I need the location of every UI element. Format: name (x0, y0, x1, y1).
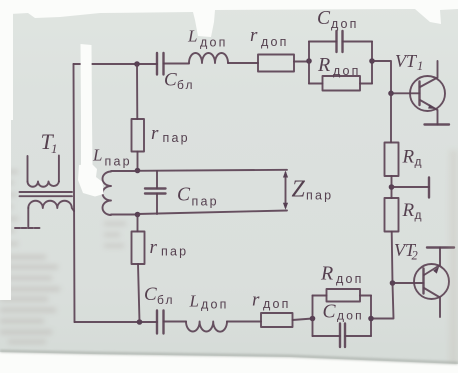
svg-text:д: д (415, 155, 424, 169)
resistor r_пар (lower) (132, 232, 145, 265)
wire: secondary left lead (27, 208, 29, 227)
svg-text:доп: доп (200, 36, 228, 50)
resistor r_доп (top) (258, 55, 294, 72)
svg-text:бл: бл (157, 293, 175, 307)
svg-text:C: C (323, 302, 337, 323)
svg-text:Z: Z (292, 177, 306, 203)
terminal bar at center tap (428, 178, 430, 198)
wire down to VT2 base (392, 232, 424, 284)
svg-text:пар: пар (163, 131, 190, 145)
svg-text:C: C (144, 284, 157, 305)
wire: bottom rail left segment (75, 321, 158, 323)
wire: right stub of top RC block (371, 42, 373, 84)
node: bottom-left junction dot (137, 319, 143, 325)
wire: middle branch from top rail (136, 64, 138, 119)
transistor VT2 (414, 264, 449, 299)
capacitor C_бл (bottom) (157, 311, 164, 334)
wire: VT2 base junction to bottom rail (371, 283, 394, 319)
wire: left vertical (74, 64, 75, 322)
resistor R_д (upper) (385, 143, 399, 177)
wire: right stub of bottom RC block (370, 296, 372, 337)
svg-text:пар: пар (306, 189, 333, 203)
svg-text:R: R (317, 54, 330, 76)
svg-text:R: R (402, 200, 415, 221)
svg-text:r: r (150, 237, 158, 258)
node: right node of top RC block (369, 58, 375, 64)
node: top-left junction dot (134, 61, 140, 67)
svg-text:пар: пар (105, 155, 132, 169)
wire to VT1 base (372, 61, 420, 93)
svg-text:C: C (164, 70, 177, 91)
svg-text:доп: доп (331, 17, 359, 31)
wire: left stub of bottom RC block (312, 296, 314, 337)
inductor L_пар (103, 171, 138, 215)
node: VT2 base junction (390, 280, 396, 286)
resistor R_д (lower) (385, 198, 399, 232)
wire: left stub of top RC block (308, 42, 310, 84)
svg-text:2: 2 (412, 249, 418, 263)
svg-text:1: 1 (417, 59, 423, 73)
svg-text:r: r (250, 25, 258, 46)
resistor r_пар (upper) (132, 119, 145, 152)
resistor R_доп (top branch) (309, 83, 372, 85)
svg-text:r: r (252, 290, 260, 311)
wire (138, 264, 140, 322)
node: divider center tap (389, 184, 395, 190)
wire (228, 62, 258, 64)
svg-text:бл: бл (177, 78, 195, 92)
wire: tank bottom line to Z bracket (138, 211, 288, 215)
svg-text:C: C (317, 8, 331, 29)
svg-text:доп: доп (201, 298, 229, 312)
resistor R_доп (bottom branch top) (313, 295, 372, 297)
svg-text:доп: доп (336, 272, 364, 286)
svg-text:C: C (177, 185, 191, 206)
wire (293, 319, 313, 321)
svg-text:L: L (189, 292, 199, 311)
capacitor C_доп (bottom branch) (313, 335, 372, 337)
svg-text:доп: доп (263, 297, 291, 311)
capacitor C_бл (top) (157, 53, 164, 75)
wire: divider chain from VT1 base (390, 93, 392, 142)
capacitor C_доп (top branch) (309, 41, 372, 43)
svg-text:R: R (402, 147, 415, 168)
wire (137, 215, 139, 232)
wire (164, 321, 187, 323)
transformer T1 core (20, 192, 73, 196)
svg-text:д: д (415, 208, 424, 222)
node: left node of bottom RC block (310, 316, 316, 322)
wire: center tap lead (392, 186, 430, 188)
bleed-through text left margin (0, 170, 126, 344)
node: left node of top RC block (306, 58, 312, 64)
svg-text:доп: доп (337, 309, 364, 323)
wire (164, 63, 190, 65)
terminal dash at secondary (15, 227, 41, 229)
svg-text:VT: VT (395, 51, 418, 71)
wire (137, 152, 139, 171)
page right edge tint (449, 150, 458, 373)
wire (227, 321, 261, 323)
measurement arrow Z_пар (285, 173, 287, 207)
svg-text:доп: доп (261, 35, 289, 49)
svg-text:пар: пар (192, 195, 219, 209)
resistor r_доп (bottom) (261, 313, 293, 327)
svg-text:L: L (187, 27, 197, 46)
transformer T1 primary winding (28, 156, 59, 182)
capacitor C_пар (156, 171, 158, 214)
wire (391, 176, 393, 198)
node: right node of bottom RC block (368, 316, 374, 322)
wire: tank top line to Z bracket (138, 170, 288, 171)
wire (294, 61, 309, 63)
svg-text:r: r (151, 123, 159, 144)
transformer T1 secondary winding (28, 201, 74, 211)
svg-text:1: 1 (51, 141, 58, 156)
node: tank bottom (135, 212, 141, 218)
svg-text:R: R (320, 263, 333, 285)
wire: top rail left segment (74, 63, 158, 65)
ground bar below VT1 (425, 123, 450, 125)
svg-text:доп: доп (333, 64, 361, 78)
inductor L_доп (top) (189, 53, 228, 63)
ground bar above VT2 (427, 246, 454, 248)
node: VT1 base junction (388, 91, 394, 97)
svg-text:L: L (92, 146, 102, 165)
transistor VT1 (410, 76, 445, 111)
inductor L_доп (bottom) (186, 322, 227, 332)
node: tank top (135, 168, 141, 174)
svg-text:пар: пар (161, 245, 188, 259)
page bottom edge shadow (0, 351, 458, 363)
